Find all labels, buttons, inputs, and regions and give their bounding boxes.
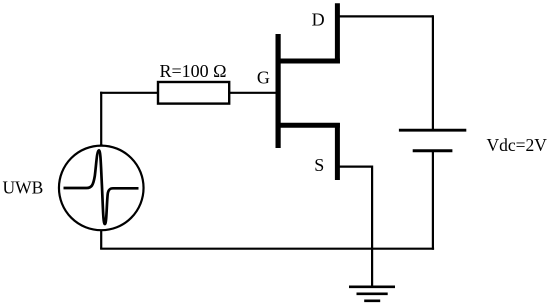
UWB source circle bbox=[59, 146, 144, 231]
battery Vdc negative plate (short) bbox=[413, 149, 453, 152]
wire: source bottom vertical to bottom rail bbox=[100, 230, 102, 249]
svg-text:G: G bbox=[257, 68, 270, 88]
svg-text:R=100 Ω: R=100 Ω bbox=[159, 61, 226, 81]
ground bar 3 bbox=[364, 299, 380, 302]
ground bar 2 bbox=[357, 292, 388, 295]
UWB pulse waveform bbox=[64, 150, 139, 224]
battery Vdc positive plate (long) bbox=[399, 129, 466, 132]
svg-text:D: D bbox=[312, 10, 325, 30]
wire: source lead to ground node bbox=[339, 167, 372, 287]
transistor Q1 source stub (thick vertical) bbox=[335, 123, 340, 180]
wire: battery bottom vertical bbox=[432, 151, 434, 250]
svg-text:Vdc=2V: Vdc=2V bbox=[487, 135, 548, 155]
svg-text:UWB: UWB bbox=[3, 178, 44, 198]
wire: source top vertical into UWB circle bbox=[100, 144, 102, 146]
wire: left vertical from resistor level down to source top bbox=[100, 92, 102, 146]
resistor R1 body bbox=[158, 82, 229, 104]
transistor Q1 drain stub (thick vertical) bbox=[335, 3, 340, 63]
svg-text:S: S bbox=[314, 155, 324, 175]
transistor Q1 source arm (thick) bbox=[276, 123, 340, 128]
transistor Q1 (MESFET) gate bar bbox=[276, 34, 281, 148]
wire: resistor left lead bbox=[100, 92, 158, 94]
wire: drain to battery top bbox=[339, 15, 433, 17]
ground bar 1 bbox=[349, 285, 395, 288]
wire: bottom rail bbox=[100, 248, 434, 250]
wire: resistor right lead to gate bbox=[229, 92, 277, 94]
wire: battery top vertical bbox=[432, 15, 434, 130]
transistor Q1 drain arm (thick) bbox=[276, 59, 340, 64]
